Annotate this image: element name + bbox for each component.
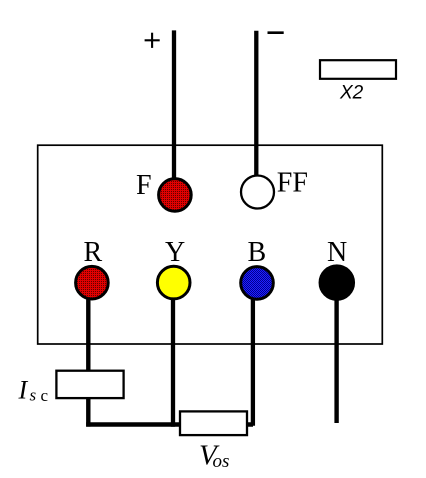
svg-text:os: os: [213, 451, 230, 472]
svg-text:B: B: [248, 237, 267, 268]
terminal N (black): [320, 266, 354, 300]
terminal R (red): [76, 266, 109, 299]
voltmeter Vos (box over bottom link): [180, 411, 247, 435]
wire: B phase lead down to Vos: [251, 296, 255, 426]
wire: N neutral lead: [334, 296, 338, 423]
svg-text:I: I: [18, 375, 29, 404]
terminal Y (yellow): [157, 266, 190, 299]
resistor X2 (multiplier box): [320, 60, 396, 79]
wire: bottom horizontal link (Isc to Vos to B): [86, 422, 253, 427]
terminal B (blue): [241, 267, 274, 300]
wire: - supply lead into FF terminal: [254, 31, 258, 188]
plus label (+ supply terminal): [145, 33, 160, 48]
svg-text:F: F: [136, 170, 152, 201]
terminal FF (open): [241, 176, 274, 209]
svg-text:R: R: [84, 237, 103, 268]
label Isc: [18, 375, 49, 405]
svg-text:FF: FF: [277, 168, 308, 199]
svg-text:s: s: [30, 386, 37, 405]
svg-text:Y: Y: [165, 237, 185, 268]
wire: + supply lead into F terminal: [172, 30, 176, 190]
terminal box outline: [38, 145, 383, 344]
ammeter Isc (short-circuit box over R lead): [56, 371, 123, 398]
label Vos: [199, 440, 229, 473]
wire: Y phase lead down to link: [171, 296, 175, 427]
terminal F (red): [159, 179, 192, 212]
minus label (- supply terminal): [268, 31, 284, 34]
wire: R phase lead down to Isc: [86, 296, 90, 427]
svg-text:N: N: [327, 237, 347, 268]
svg-text:c: c: [41, 386, 49, 405]
svg-text:X2: X2: [339, 83, 364, 104]
